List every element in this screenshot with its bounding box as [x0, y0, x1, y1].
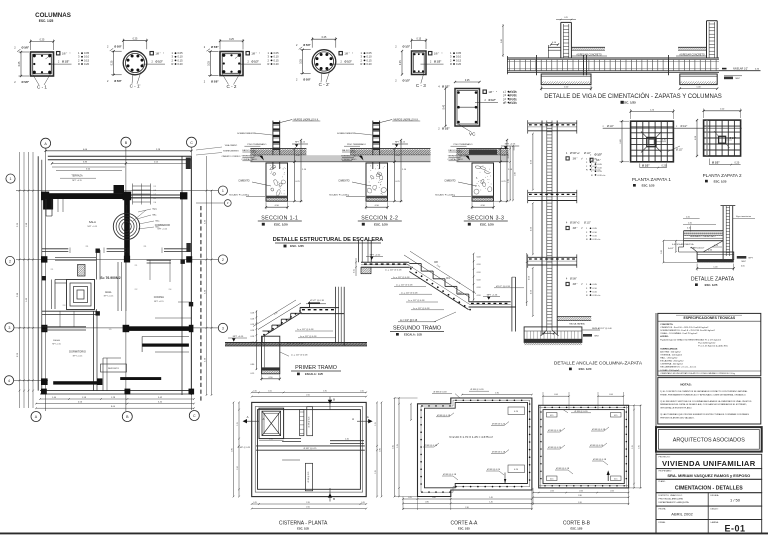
cisterna section marker B bottom — [329, 488, 331, 502]
column section C-3 — [412, 40, 427, 42]
svg-text:0.20 c/e: 0.20 c/e — [593, 239, 602, 241]
bottom width dimension of SECCION 2-2 — [366, 206, 388, 208]
svg-text:0.9: 0.9 — [154, 190, 157, 192]
svg-text:0.25: 0.25 — [300, 59, 303, 64]
svg-text:3: 3 — [8, 326, 10, 330]
svg-text:0.10: 0.10 — [367, 55, 373, 59]
grid bubble B top — [121, 137, 131, 147]
svg-text:CORREDOR: CORREDOR — [155, 223, 170, 227]
footing under column K1 — [541, 74, 591, 85]
svg-text:C - 3: C - 3 — [416, 83, 426, 88]
anchorage floor beam level 3 — [528, 256, 577, 258]
svg-text:R: R — [172, 62, 174, 66]
svg-text:Ø 5/8": Ø 5/8" — [570, 277, 577, 280]
planta zapata 2 grid — [704, 120, 741, 156]
svg-text:SECCION 2-2: SECCION 2-2 — [361, 216, 398, 222]
svg-text:NFZ: NFZ — [595, 335, 600, 337]
svg-text:1.15: 1.15 — [237, 422, 239, 426]
svg-text:SECCION 1-1: SECCION 1-1 — [261, 216, 298, 222]
svg-text:ESCALA:: ESCALA: — [711, 494, 720, 497]
svg-text:0.05: 0.05 — [84, 51, 90, 55]
cyclopean footing of SECCION 1-1 — [266, 163, 288, 201]
svg-text:0.25: 0.25 — [322, 36, 327, 39]
svg-text:Ø 3/8 @ 0.25: Ø 3/8 @ 0.25 — [308, 472, 310, 483]
svg-text:Ø 1/2": Ø 1/2" — [345, 61, 353, 64]
cisterna vertical rebar strip 2 — [307, 407, 313, 436]
svg-text:ESC. 1/25: ESC. 1/25 — [570, 527, 582, 531]
svg-text:C - 1': C - 1' — [130, 83, 141, 88]
svg-text:3.10: 3.10 — [578, 502, 582, 504]
svg-text:Ø 0.33: Ø 0.33 — [509, 101, 517, 105]
plan top dimension chain rows — [46, 150, 192, 152]
svg-text:PLANTILLA 1/2": PLANTILLA 1/2" — [690, 246, 705, 249]
planta zapata 2 left dimension — [696, 120, 698, 156]
rebar note for VC — [483, 90, 486, 93]
svg-text:0.40 SOLADO MEZCLA: 0.40 SOLADO MEZCLA — [672, 243, 694, 246]
cocina counter walls — [142, 336, 189, 338]
svg-text:0.20: 0.20 — [662, 164, 667, 167]
svg-text:Fy = 4200 kg/cm2: Fy = 4200 kg/cm2 — [698, 342, 716, 344]
svg-text:NPT +0.15: NPT +0.15 — [154, 301, 164, 303]
svg-text:2.80: 2.80 — [379, 448, 381, 452]
segundo tramo vertical dim with step heights — [473, 254, 475, 301]
cisterna vertical rebar strip 1 — [300, 410, 304, 436]
svg-text:1.00: 1.00 — [661, 250, 663, 254]
svg-text:0.15: 0.15 — [614, 415, 618, 417]
svg-text:Ø 1/2": Ø 1/2" — [252, 61, 260, 64]
plan left boundary wall — [37, 156, 39, 390]
svg-text:0.15: 0.15 — [687, 228, 691, 230]
svg-text:Fs = 1.55 Kg/cm2 (Ladrillo KK: Fs = 1.55 Kg/cm2 (Ladrillo KK) — [698, 345, 727, 347]
svg-text:NPT +1.26: NPT +1.26 — [487, 294, 498, 296]
plan grid line C vertical — [191, 147, 193, 410]
svg-text:2.50: 2.50 — [306, 395, 310, 397]
primer tramo footing pit — [262, 336, 280, 374]
svg-text:0.20: 0.20 — [456, 62, 462, 66]
corte A-A wall mid lines — [421, 400, 530, 492]
svg-text:Ø 3/8 @ 0.18: Ø 3/8 @ 0.18 — [556, 468, 570, 470]
svg-text:R: R — [450, 62, 452, 66]
svg-text:PLANO:: PLANO: — [659, 480, 666, 483]
svg-text:0.18: 0.18 — [477, 287, 481, 289]
svg-text:*: * — [70, 53, 71, 56]
planta zapata 1 top dimension — [631, 111, 674, 113]
segundo tramo right wall upper ticks — [512, 276, 516, 278]
svg-text:0.05: 0.05 — [456, 51, 462, 55]
svg-text:Ø 1/2": Ø 1/2" — [403, 79, 411, 83]
svg-text:Ø 5/8": Ø 5/8" — [303, 43, 311, 47]
foundation beam axis3 B-C (filled) — [124, 326, 193, 331]
svg-text:CONCRETO:: CONCRETO: — [660, 324, 673, 326]
column section C-2' — [312, 38, 336, 40]
floor slab stub left of column K2 — [678, 46, 707, 48]
svg-text:3/8 ": 3/8 " — [573, 227, 578, 230]
cisterna section marker A-A right — [357, 420, 372, 422]
svg-text:C - 1: C - 1 — [37, 85, 47, 90]
svg-text:D4: D4 — [446, 276, 450, 280]
svg-text:0.60: 0.60 — [432, 497, 436, 499]
svg-text:0.18: 0.18 — [251, 312, 255, 314]
svg-text:DIBUJO:: DIBUJO: — [711, 508, 719, 510]
svg-text:1: 1 — [10, 177, 12, 181]
cisterna outer wall — [252, 402, 367, 496]
svg-text:0.18: 0.18 — [251, 318, 255, 320]
planta zapata 1 grid — [631, 121, 674, 162]
foundation beam elevation (detalle de viga) — [507, 57, 719, 59]
svg-text:2: 2 — [9, 260, 11, 264]
svg-text:CIMENTADO EN UN ESTRATO DE APO: CIMENTADO EN UN ESTRATO DE APOYO CONGLOM… — [660, 372, 735, 375]
foundation beam axis B vertical (filled) — [124, 193, 130, 260]
svg-text:PRIMER TRAMO: PRIMER TRAMO — [295, 365, 337, 371]
svg-text:ESC. 1/25: ESC. 1/25 — [705, 283, 718, 287]
svg-text:ABRIL 2002: ABRIL 2002 — [671, 511, 693, 516]
svg-text:MINIMA SEGUN EL DETALLE DE ANC: MINIMA SEGUN EL DETALLE DE ANCLAJE, CON … — [660, 403, 747, 406]
primer tramo steps ascending — [263, 330, 272, 332]
svg-text:0.25: 0.25 — [40, 38, 45, 41]
svg-text:ESC. 1/20: ESC. 1/20 — [579, 367, 592, 371]
svg-text:3) LAS TUBERIAS QUE CRUCEN ELE: 3) LAS TUBERIAS QUE CRUCEN ELEMENTOS EST… — [660, 413, 749, 416]
cisterna bottom dimension rows — [252, 503, 367, 505]
solado band of SECCION 3-3 — [472, 196, 494, 199]
stub walls below axis1 beam at A — [45, 199, 47, 216]
detalle zapata footing — [697, 252, 734, 260]
svg-text:Ø 3/8 @ 0.18: Ø 3/8 @ 0.18 — [424, 445, 438, 447]
svg-text:F=1/2": F=1/2" — [668, 248, 674, 250]
anchorage footing — [524, 327, 582, 343]
svg-text:FIRME, PREVIAMENTE HUMEDECIDO: FIRME, PREVIAMENTE HUMEDECIDO Y APISONAD… — [660, 393, 746, 396]
stair well walls near hall — [96, 250, 98, 280]
svg-text:Ø 1/2": Ø 1/2" — [442, 127, 450, 131]
svg-text:2.1: 2.1 — [144, 246, 147, 248]
svg-text:CIMIENTOS : Fc=1:10 + 30% P.G.: CIMIENTOS : Fc=1:10 + 30% P.G. Fc=100 kg… — [660, 327, 709, 329]
svg-text:SOBRECARGAS:: SOBRECARGAS: — [660, 347, 678, 350]
svg-text:2.50: 2.50 — [306, 507, 310, 509]
svg-text:0.25: 0.25 — [229, 38, 234, 41]
footing K1 dimension — [541, 88, 591, 90]
svg-text:0.25: 0.25 — [564, 17, 568, 19]
svg-text:1.45: 1.45 — [489, 497, 493, 499]
anchorage column ladder rungs — [547, 122, 552, 124]
svg-text:SEGUNDO TRAMO: SEGUNDO TRAMO — [393, 326, 441, 332]
svg-text:C - 2: C - 2 — [227, 84, 237, 89]
svg-text:0.25: 0.25 — [686, 216, 690, 218]
svg-text:0.15: 0.15 — [253, 390, 257, 392]
corte B-B top slab inner line — [539, 406, 629, 408]
svg-text:*: * — [259, 53, 260, 56]
svg-text:0.25: 0.25 — [207, 61, 210, 66]
planta zapata 2 centre column — [719, 136, 726, 143]
svg-text:0.18: 0.18 — [251, 342, 255, 344]
svg-text:DETALLE ESTRUCTURAL DE ESCA: DETALLE ESTRUCTURAL DE ESCALERA — [273, 237, 383, 243]
svg-text:NPT +0.15: NPT +0.15 — [72, 180, 82, 182]
floor slab hatched band at SECCION 3-3 — [457, 148, 509, 150]
svg-text:SOBRECIMIENTO: SOBRECIMIENTO — [237, 133, 256, 135]
black cross stub above B column — [114, 185, 125, 193]
svg-text:Ø 5/8": Ø 5/8" — [303, 77, 311, 81]
primer tramo top landing — [301, 307, 340, 309]
svg-text:DEPARTAMENTO: AREQUIPA: DEPARTAMENTO: AREQUIPA — [659, 501, 690, 504]
svg-text:Ø 3/8 @ 0.20: Ø 3/8 @ 0.20 — [590, 445, 604, 447]
corte B-B inner box — [543, 410, 624, 484]
NPT level mark at seccion 3-3 — [501, 145, 519, 147]
svg-text:Ø 1/2": Ø 1/2" — [403, 45, 411, 49]
segundo tramo bottom landing slab — [469, 301, 511, 303]
svg-text:2.1: 2.1 — [51, 269, 54, 271]
svg-text:0.05: 0.05 — [367, 51, 373, 55]
svg-text:1/8 ": 1/8 " — [488, 90, 493, 94]
detalle zapata bottom width dim — [697, 267, 734, 269]
svg-text:ESC. 1/20: ESC. 1/20 — [274, 222, 288, 226]
svg-text:0.85: 0.85 — [425, 501, 429, 503]
nested square detail (gradas) — [67, 280, 95, 310]
vertical dim left of beam — [502, 24, 504, 57]
svg-text:ARQUITECTOS ASOCIADOS: ARQUITECTOS ASOCIADOS — [673, 438, 745, 444]
beam left end vertical — [506, 56, 508, 74]
SS.HH small room walls — [55, 279, 67, 281]
svg-text:0.80: 0.80 — [251, 364, 255, 366]
right dimension lines of SECCION 3-3 — [500, 149, 502, 162]
svg-text:0.15: 0.15 — [178, 58, 184, 62]
svg-text:Ø 3/8 @ 0.18: Ø 3/8 @ 0.18 — [592, 429, 606, 431]
column blocks on plan bottom wall — [41, 389, 47, 395]
svg-text:0.15: 0.15 — [360, 390, 364, 392]
cyclopean footing of SECCION 3-3 — [472, 163, 494, 201]
svg-text:PISO TERMINADO: PISO TERMINADO — [247, 143, 266, 146]
svg-text:ESCALERA : 200 kg/m2: ESCALERA : 200 kg/m2 — [660, 360, 684, 363]
plan grid line 2 horizontal — [16, 259, 218, 261]
title block left border line — [655, 313, 657, 534]
svg-text:CISTERNA - PLANTA: CISTERNA - PLANTA — [279, 521, 328, 527]
svg-text:1/8 ": 1/8 " — [434, 52, 439, 56]
svg-text:Ø 3/8 @ 0.25: Ø 3/8 @ 0.25 — [309, 417, 311, 428]
column stub above SECCION 1-1 — [272, 121, 274, 169]
svg-text:PLANTA ZAPATA 2: PLANTA ZAPATA 2 — [703, 173, 742, 178]
central corridor walls — [117, 262, 119, 311]
anchorage floor beam level 2 — [528, 192, 577, 194]
svg-text:Ø 5/8": Ø 5/8" — [211, 45, 219, 49]
svg-text:0.25: 0.25 — [465, 79, 470, 82]
column K2 above beam — [706, 21, 708, 58]
svg-text:SOLADO F'c=100kg: SOLADO F'c=100kg — [229, 194, 250, 197]
svg-text:Ø 1/2": Ø 1/2" — [676, 149, 683, 152]
svg-text:2.80: 2.80 — [578, 495, 582, 497]
svg-text:0.18: 0.18 — [477, 295, 481, 297]
detalle zapata column — [722, 206, 724, 259]
bottom width dimension of SECCION 3-3 — [472, 206, 494, 208]
svg-text:NIVELAR 1/2" @ 0.40: NIVELAR 1/2" @ 0.40 — [592, 327, 613, 330]
cisterna mid beam band — [256, 445, 365, 447]
svg-text:Ø 0.15: Ø 0.15 — [509, 97, 517, 101]
planta zapata 2 left edge band — [706, 120, 708, 156]
right dim for seccion 3-3 top — [509, 146, 511, 200]
column stub above SECCION 2-2 — [372, 121, 374, 169]
svg-text:NPT +0.15: NPT +0.15 — [88, 226, 98, 228]
svg-text:0.15: 0.15 — [550, 415, 554, 417]
svg-text:ESC. 1/25: ESC. 1/25 — [622, 101, 636, 105]
corte B-B corner boxes — [547, 413, 558, 418]
svg-text:0.94: 0.94 — [550, 491, 554, 493]
svg-text:CIMIENTO: CIMIENTO — [444, 181, 455, 183]
grid bubble 2' mid-left short axis — [224, 200, 231, 207]
svg-text:Ø 1/2": Ø 1/2" — [595, 153, 603, 157]
svg-text:Ø 3/8 @ 0.18: Ø 3/8 @ 0.18 — [433, 392, 447, 394]
plan top wall (axis 1') — [48, 155, 192, 157]
svg-text:D2: D2 — [458, 291, 462, 295]
svg-text:1.50: 1.50 — [237, 466, 239, 470]
svg-text:1.45: 1.45 — [489, 501, 493, 503]
plan grid line 3 horizontal — [14, 327, 218, 329]
svg-text:AZOTEA : 150 kg/m2: AZOTEA : 150 kg/m2 — [660, 351, 681, 354]
cisterna section marker A-A left — [244, 420, 259, 422]
segundo tramo steps (descending) — [409, 263, 421, 265]
svg-text:0.20: 0.20 — [84, 62, 90, 66]
corte B-B bottom dimension rows — [533, 492, 629, 494]
svg-text:0.18: 0.18 — [477, 279, 481, 281]
svg-text:Ø 3/8 @ 0.20: Ø 3/8 @ 0.20 — [492, 424, 506, 426]
svg-text:Ø 1/2": Ø 1/2" — [584, 221, 591, 224]
segundo tramo upper landing slab — [361, 261, 409, 263]
rebar note for C-2' — [339, 52, 342, 55]
svg-text:0.20: 0.20 — [688, 222, 692, 224]
corte A-A rebar dots bottom slab — [455, 486, 457, 488]
svg-text:FALSO PISO: FALSO PISO — [242, 149, 255, 152]
plan inner top dimension rows — [52, 162, 188, 164]
svg-text:0.15: 0.15 — [274, 58, 280, 62]
svg-text:ESC. 1/20: ESC. 1/20 — [480, 222, 494, 226]
svg-text:2.3: 2.3 — [63, 305, 66, 307]
svg-text:VC: VC — [469, 132, 476, 137]
svg-text:*: * — [496, 91, 497, 94]
grid bubble 4 left — [4, 376, 13, 385]
proyecto row - vivienda unifamiliar — [656, 454, 762, 468]
plan left dimension chain lines — [19, 152, 21, 408]
solado band of SECCION 2-2 — [366, 196, 388, 199]
corte B-B outer box — [539, 405, 629, 488]
detalle zapata slab lines — [684, 230, 724, 232]
svg-text:0.94: 0.94 — [579, 491, 583, 493]
right dimension lines of SECCION 1-1 — [294, 149, 296, 162]
svg-text:0.25: 0.25 — [399, 60, 402, 65]
svg-text:1.05: 1.05 — [268, 390, 272, 392]
svg-text:0.15: 0.15 — [367, 58, 373, 62]
svg-text:R: R — [268, 62, 270, 66]
svg-text:0.15: 0.15 — [251, 373, 255, 375]
svg-text:FECHA:: FECHA: — [659, 507, 667, 510]
sheet bottom border line — [0, 532, 768, 534]
svg-text:SALA: SALA — [89, 220, 96, 224]
corte A-A rebar dots right wall — [529, 403, 531, 405]
svg-text:B: B — [333, 497, 335, 501]
leader notes left of SECCION 2-2 — [344, 145, 360, 147]
svg-text:0.15: 0.15 — [361, 502, 365, 504]
ground gray band at SECCION 1-1 — [250, 155, 346, 162]
segundo tramo diagonal dimension above steps — [404, 255, 470, 298]
segundo tramo sloped slab underside — [409, 272, 468, 310]
svg-text:0.25: 0.25 — [111, 60, 114, 65]
svg-text:0.10: 0.10 — [456, 55, 462, 59]
svg-text:0.15: 0.15 — [253, 502, 257, 504]
primer tramo ground hatched band — [225, 342, 367, 344]
dark wall segment right wall mid — [186, 243, 190, 252]
cisterna vertical rebar strip 3 — [305, 463, 312, 491]
svg-text:Ø 1/2": Ø 1/2" — [156, 61, 164, 64]
svg-text:SECCION 3-3: SECCION 3-3 — [467, 216, 504, 222]
svg-text:1.70: 1.70 — [508, 179, 510, 183]
svg-text:COCINA: COCINA — [154, 295, 164, 299]
rebar note for C-2 — [246, 52, 249, 55]
planta zapata 2 bottom rebar note — [709, 164, 740, 166]
svg-text:*: * — [163, 53, 164, 56]
grid bubble C top — [187, 137, 197, 147]
svg-text:DETALLE ZAPATA: DETALLE ZAPATA — [691, 276, 735, 282]
svg-text:ESPECIFICACIONES TECNICAS: ESPECIFICACIONES TECNICAS — [683, 316, 735, 320]
svg-text:Ls = 1/2" @ 0.18: Ls = 1/2" @ 0.18 — [287, 343, 304, 345]
corte A-A rebar dots left wall — [420, 409, 422, 411]
plan grid line B vertical — [125, 147, 127, 411]
dimension ladder right of B column — [133, 185, 151, 187]
svg-text:DISTRITO: UMACOLLO: DISTRITO: UMACOLLO — [659, 494, 683, 497]
svg-text:Ø 1/2": Ø 1/2" — [681, 125, 688, 128]
anchorage column verticals — [541, 121, 543, 335]
axis 2 lower wall segments — [147, 259, 171, 261]
svg-text:*: * — [352, 53, 353, 56]
anchorage floor beam level 1 — [528, 122, 577, 124]
plan grid line 1 horizontal — [16, 190, 218, 192]
planta zapata 1 left dimension — [621, 121, 623, 162]
cisterna horizontal strip right — [330, 440, 364, 442]
NPT level mark at seccion 2-2 — [392, 143, 408, 145]
svg-text:1.25: 1.25 — [632, 445, 634, 449]
svg-text:Ø 1/2": Ø 1/2" — [62, 61, 70, 64]
cisterna left dimension columns — [238, 402, 240, 496]
svg-text:NPT +0.15: NPT +0.15 — [104, 296, 114, 298]
svg-text:2) EL REFUERZO VERTICAL DE COL: 2) EL REFUERZO VERTICAL DE COLUMNAS ANCL… — [660, 400, 752, 403]
svg-text:0.18: 0.18 — [251, 330, 255, 332]
segundo tramo rebar dots along slope — [410, 268, 412, 270]
svg-text:Ø 0.05: Ø 0.05 — [509, 90, 517, 94]
svg-text:0.18: 0.18 — [477, 272, 481, 274]
floor slab hatched band at SECCION 2-2 — [350, 148, 431, 150]
svg-text:0.25: 0.25 — [547, 331, 551, 333]
svg-text:3/8 ": 3/8 " — [573, 283, 578, 286]
dormitorio right wall — [93, 311, 95, 390]
NPT level leader right of beam — [719, 70, 761, 72]
segundo tramo NPT label upper — [366, 256, 383, 258]
svg-text:Ø 1/2": Ø 1/2" — [489, 99, 497, 102]
corte A-A top dimension — [462, 394, 532, 396]
NFZ label under beam end — [724, 75, 742, 77]
svg-text:3/8 ": 3/8 " — [596, 159, 601, 162]
svg-text:CISTERNA : 400 kg/m2: CISTERNA : 400 kg/m2 — [660, 363, 683, 366]
svg-text:1) EL CONCRETO DE CIMIENTOS SE: 1) EL CONCRETO DE CIMIENTOS SE VACIARA E… — [660, 390, 748, 393]
grid bubble A top — [41, 138, 51, 148]
notas box — [658, 378, 761, 424]
svg-text:0.15: 0.15 — [550, 479, 554, 481]
svg-text:DETALLE ANCLAJE COLUMNA-ZAPATA: DETALLE ANCLAJE COLUMNA-ZAPATA — [554, 361, 643, 367]
svg-text:TERRAZA: TERRAZA — [71, 175, 83, 178]
svg-text:Ø 3/8" @ 0.25: Ø 3/8" @ 0.25 — [238, 447, 252, 449]
grid bubble 3 left — [5, 323, 14, 332]
plan bottom wall — [40, 390, 194, 392]
grid bubble A bottom — [31, 412, 41, 422]
cisterna inner wall — [258, 410, 361, 490]
svg-text:Ø 3/8 @ 0.18: Ø 3/8 @ 0.18 — [437, 415, 451, 417]
svg-text:PROVINCIA: AREQUIPA: PROVINCIA: AREQUIPA — [659, 498, 684, 501]
thin beam axis1 B-C — [130, 194, 182, 196]
column blocks on axis 1 — [41, 192, 49, 201]
svg-text:NPT +0.15: NPT +0.15 — [233, 336, 244, 338]
svg-text:R: R — [503, 102, 505, 105]
